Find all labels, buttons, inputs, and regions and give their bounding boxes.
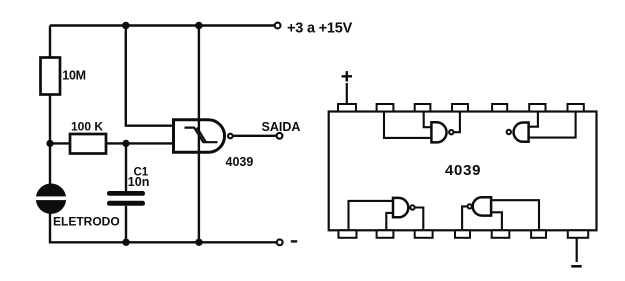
label minus [291,240,297,242]
svg-text:10M: 10M [62,69,85,83]
node bottom rail dot C [122,239,129,246]
schmitt hysteresis symbol [185,128,218,143]
pin 12 top [415,104,431,112]
terminal +V open circle [275,23,281,29]
resistor R1 10M [41,58,61,95]
svg-text:100 K: 100 K [71,120,103,134]
wire bottom ground rail [50,241,276,243]
gate D body (bottom-right, points left) [473,197,491,215]
wire IC supply vertical through gate [198,26,200,243]
pin 2 bottom [377,230,394,238]
wire 100K row [50,142,126,144]
wire pin11 to gate A output [454,112,460,133]
svg-text:10n: 10n [128,175,150,189]
pin 1 bottom [339,230,357,238]
pin 3 bottom [415,230,433,238]
wire pin 7 to ground [576,238,578,262]
pin 9 top [529,104,545,112]
svg-text:4039: 4039 [226,155,254,169]
wire gate lower input [126,142,174,144]
pin 14 top [338,104,356,112]
gate C body (bottom-left, points right) [393,198,408,217]
IC U2 4039 body [329,112,597,231]
pin 7 bottom [568,230,588,238]
node top rail dot B [195,22,203,30]
label minus IC [571,265,581,268]
wire gate C output to pin3 [415,208,423,231]
svg-text:4039: 4039 [445,162,481,179]
capacitor C1 plate top [107,191,145,196]
wire left vertical branch [49,26,51,244]
terminal SAIDA open circle [277,133,283,139]
gate C bubble [410,205,414,209]
pin 10 top [492,104,507,112]
svg-text:+3 a +15V: +3 a +15V [287,21,353,37]
pin 4 bottom [455,230,470,238]
resistor R2 100K [70,134,106,154]
pin 11 top [452,104,468,112]
op-amp/gate U1 NAND body [174,120,225,153]
gate A body (top-left, points right) [431,122,446,142]
wire top supply rail [50,24,274,26]
electrode sensor [33,184,69,214]
gate D bubble [468,204,472,208]
wire pin9 to gate B upper input [529,112,538,127]
wire pin13 to gate A lower input [384,112,431,138]
node top rail dot A [122,22,130,30]
gate B body (top-right, points left) [514,123,529,142]
capacitor C1 plate bottom [107,201,145,206]
label plus sign [342,71,352,81]
wire output to SAIDA [234,135,277,137]
gate A bubble [449,130,453,134]
node junction gate input [122,140,129,147]
terminal minus open circle [277,239,283,245]
wire gate D output to pin4 [462,206,467,230]
wire pin1 to gate C upper input [349,201,394,230]
pin 5 bottom [492,230,510,238]
pin 13 top [377,104,394,112]
node bottom rail dot D [195,239,202,246]
wire pin12 to gate A upper input [424,112,432,128]
pin 8 top [568,104,584,112]
gate output bubble [228,134,233,139]
wire capacitor to ground rail [125,206,127,243]
gate B bubble [507,130,511,134]
wire pin6 to gate D upper input [491,200,539,230]
pin 6 bottom [531,230,546,238]
node junction left (10M/100K/electrode) [46,140,53,147]
wire +V to pin 14 [346,83,348,104]
wire pin2 to gate C lower input [386,213,393,230]
wire from top rail to gate upper input [126,26,174,126]
wire pin8 to gate B lower input [529,112,576,138]
svg-text:SAIDA: SAIDA [262,120,301,134]
wire pin5 to gate D lower input [491,212,502,230]
wire capacitor branch [125,143,127,192]
svg-text:ELETRODO: ELETRODO [53,214,120,228]
